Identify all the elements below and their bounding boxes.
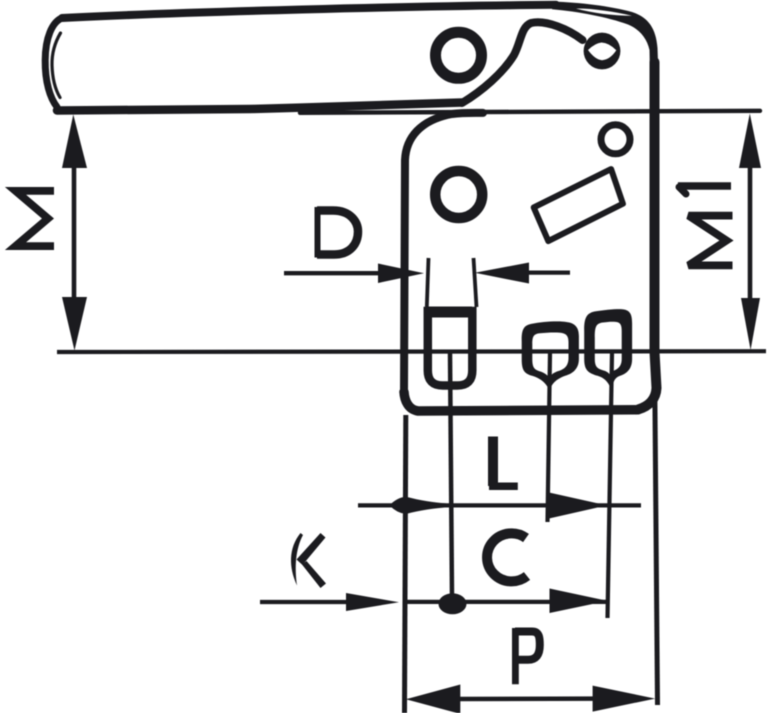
angled slot (rotated rectangle): [534, 169, 623, 241]
base bottom edge: [404, 392, 638, 411]
top reference line (body top edge, M1 extension): [300, 111, 760, 113]
clamp arm front dome edge: [462, 22, 583, 103]
label C: [487, 533, 527, 581]
dimension L: [358, 493, 641, 519]
right edge extension line: [655, 352, 658, 705]
label M1 (rotated): [678, 186, 733, 265]
bottom reference line: [57, 349, 766, 354]
body left edge: [404, 113, 483, 392]
left edge extension line: [405, 415, 406, 713]
dimension M1: [739, 114, 761, 351]
label M (rotated): [16, 191, 55, 246]
body right edge: [638, 62, 657, 410]
slot2 centre extension line: [548, 353, 551, 522]
slot1 centre extension line: [450, 352, 452, 597]
handle cap inner arc: [52, 33, 61, 98]
pivot plate top-right corner (handle end merging into plate edge): [552, 2, 659, 86]
label P: [515, 628, 540, 684]
dimension K arrow: [260, 593, 399, 611]
slot 2 (middle base slot): [522, 321, 579, 390]
white sliver where handle tip overlaps plate: [576, 8, 632, 15]
upper body circle hole: [435, 171, 482, 218]
dimension P: [406, 685, 655, 713]
dimension C: [403, 589, 608, 615]
diamond hole: circle with square pin: [584, 33, 621, 70]
label L: [489, 437, 518, 487]
handle left end cap: [45, 18, 62, 107]
handle bottom edge: [57, 103, 462, 111]
small circle hole: [601, 125, 630, 154]
dimension M: [62, 115, 87, 351]
slot 1 (left base slot): [427, 258, 477, 386]
label K: [291, 533, 326, 588]
handle top edge: [62, 5, 556, 18]
slot3 centre extension line: [608, 353, 613, 618]
dimension D: [284, 263, 570, 284]
label D: [317, 207, 358, 258]
slot 3 (right base slot): [584, 309, 632, 390]
pivot hole circle: [436, 32, 482, 78]
